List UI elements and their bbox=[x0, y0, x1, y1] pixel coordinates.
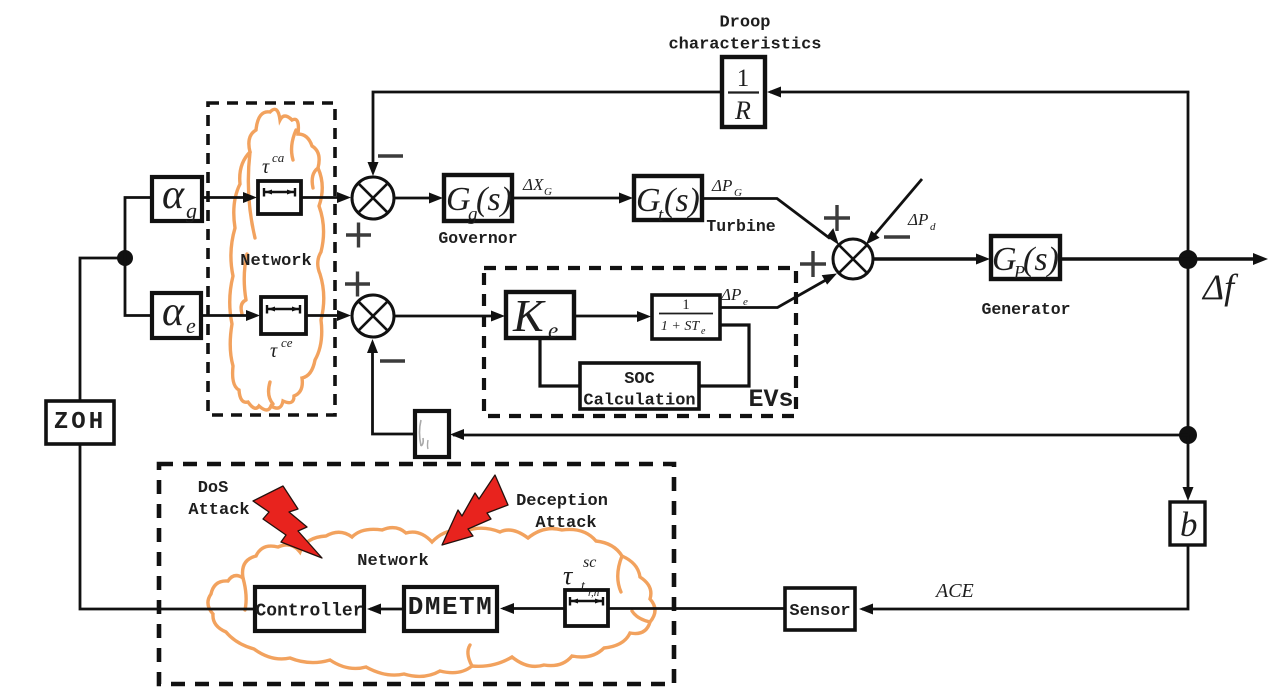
wire Controller to ZOH bbox=[80, 444, 255, 609]
wire EV sum to Ke bbox=[395, 315, 492, 318]
lightning bolt Deception bbox=[442, 475, 508, 545]
svg-text:characteristics: characteristics bbox=[668, 36, 821, 55]
lightning bolt DoS bbox=[253, 486, 322, 558]
block GP generator bbox=[991, 236, 1060, 279]
wire lag block diagonal to sum3 bbox=[720, 277, 832, 308]
svg-text:e: e bbox=[186, 313, 196, 338]
svg-text:Δf: Δf bbox=[1201, 267, 1239, 307]
svg-text:sc: sc bbox=[583, 554, 596, 571]
sign minus S1 bbox=[378, 154, 403, 158]
svg-text:e: e bbox=[548, 318, 558, 343]
label delta Pe bbox=[720, 285, 748, 308]
svg-text:b: b bbox=[1180, 505, 1198, 544]
wire feedback line to small delay block bbox=[453, 434, 1188, 437]
svg-text:ca: ca bbox=[272, 150, 285, 165]
svg-text:Droop: Droop bbox=[719, 14, 770, 33]
label delta XG bbox=[522, 175, 552, 198]
svg-text:DoS: DoS bbox=[198, 479, 229, 498]
svg-text:ΔX: ΔX bbox=[522, 175, 544, 194]
wire right vertical from droop line to output dot bbox=[1187, 92, 1190, 259]
svg-text:Calculation: Calculation bbox=[583, 392, 695, 411]
wire alpha_e to tau_ce bbox=[201, 314, 248, 317]
svg-text:g: g bbox=[186, 198, 197, 223]
wire Ke to lag block bbox=[574, 315, 638, 318]
block Gt turbine bbox=[634, 176, 702, 220]
block Controller bbox=[255, 587, 364, 631]
dashed box: EVs bbox=[484, 268, 796, 416]
wire sum3 to GP bbox=[873, 257, 976, 260]
wire ZOH up to branch dot bbox=[80, 258, 120, 401]
summing junction S3 (main) bbox=[833, 239, 873, 279]
svg-text:1: 1 bbox=[682, 297, 690, 313]
block Sensor bbox=[785, 588, 855, 630]
svg-text:ΔP: ΔP bbox=[907, 210, 928, 229]
block b bbox=[1170, 502, 1205, 545]
label delta PG bbox=[711, 176, 742, 199]
svg-text:Deception: Deception bbox=[516, 492, 608, 511]
svg-text:(s): (s) bbox=[664, 182, 700, 219]
svg-text:Governor: Governor bbox=[438, 229, 517, 248]
wire DMETM to Controller bbox=[370, 608, 404, 611]
svg-text:Sensor: Sensor bbox=[789, 602, 850, 621]
svg-text:τ: τ bbox=[262, 156, 270, 178]
value 1/(1+STe) bbox=[659, 297, 713, 337]
network cloud (top, orange) bbox=[230, 109, 324, 410]
value b bbox=[1180, 505, 1198, 544]
svg-text:r,n: r,n bbox=[588, 587, 600, 599]
value 1/R bbox=[728, 65, 759, 125]
wire alpha_g to tau_ca bbox=[202, 196, 245, 199]
wire GP to output arrow bbox=[1060, 257, 1254, 260]
wire branch to alpha_g bbox=[125, 198, 152, 259]
wire SOC loop right bbox=[699, 325, 749, 386]
dashed box: attack network bbox=[159, 464, 674, 684]
wire output dot down to lower dot bbox=[1187, 259, 1190, 435]
wire Sensor to delay tau_sc bbox=[608, 607, 785, 610]
label tau_ca bbox=[262, 150, 285, 178]
summing junction S2 (EV) bbox=[352, 295, 394, 337]
wire governor sum to Gg bbox=[395, 197, 430, 200]
svg-text:α: α bbox=[162, 172, 185, 218]
svg-text:τ: τ bbox=[270, 340, 278, 362]
block DMETM bbox=[404, 587, 497, 631]
svg-text:G: G bbox=[992, 241, 1017, 278]
svg-text:Generator: Generator bbox=[981, 300, 1070, 319]
svg-text:d: d bbox=[930, 221, 936, 233]
svg-text:Network: Network bbox=[240, 252, 311, 271]
svg-text:Controller: Controller bbox=[255, 602, 363, 622]
svg-text:(s): (s) bbox=[1023, 241, 1059, 278]
svg-text:ΔP: ΔP bbox=[720, 285, 741, 304]
svg-text:1: 1 bbox=[737, 65, 750, 92]
delay block tau_ce bbox=[261, 297, 306, 334]
value alpha_g bbox=[162, 172, 197, 223]
svg-text:ZOH: ZOH bbox=[54, 409, 106, 436]
wire down to block b bbox=[1187, 435, 1190, 488]
node branch dot bbox=[117, 250, 133, 266]
svg-text:DMETM: DMETM bbox=[408, 592, 494, 622]
wire tau_ce to EV sum bbox=[306, 314, 338, 317]
block SOC calculation bbox=[580, 363, 699, 409]
svg-text:G: G bbox=[446, 181, 471, 218]
block ZOH bbox=[46, 401, 114, 444]
value alpha_e bbox=[162, 289, 196, 338]
wire droop output left then down to governor sum bbox=[373, 92, 722, 162]
svg-text:EVs: EVs bbox=[748, 385, 793, 414]
node dot after GP bbox=[1179, 250, 1198, 269]
summing junction S1 (governor) bbox=[352, 177, 394, 219]
svg-text:ACE: ACE bbox=[934, 580, 974, 602]
block Ke bbox=[506, 292, 574, 338]
svg-text:e: e bbox=[743, 296, 748, 308]
sign plus S3 lower bbox=[800, 251, 826, 277]
sign plus S2 bbox=[345, 272, 370, 297]
sign minus S3 bbox=[884, 235, 910, 239]
block 1/R bbox=[722, 57, 765, 127]
wire Gg to Gt bbox=[512, 197, 619, 200]
sign plus S3 upper bbox=[824, 205, 850, 231]
label delta Pd bbox=[907, 210, 936, 233]
node dot feedback bbox=[1179, 426, 1197, 444]
value Ke bbox=[512, 290, 558, 343]
network cloud (bottom, orange) bbox=[208, 528, 655, 677]
sign minus S2 bbox=[380, 359, 405, 363]
svg-text:Network: Network bbox=[357, 552, 428, 571]
svg-text:K: K bbox=[512, 290, 546, 341]
delay block tau_ca bbox=[258, 181, 301, 214]
dashed box: top network bbox=[208, 103, 335, 415]
svg-text:1 + ST: 1 + ST bbox=[661, 319, 700, 334]
value Gt(s) bbox=[636, 182, 700, 226]
svg-text:(s): (s) bbox=[476, 181, 512, 218]
svg-text:ce: ce bbox=[281, 335, 293, 350]
block alpha_g bbox=[152, 177, 202, 221]
block alpha_e bbox=[152, 293, 201, 338]
block Gg governor bbox=[444, 175, 512, 221]
wire small block to lower sum minus input bbox=[373, 344, 416, 434]
wire Gt diagonal to sum3 bbox=[702, 199, 830, 239]
svg-text:G: G bbox=[636, 182, 661, 219]
svg-text:G: G bbox=[544, 186, 552, 198]
label tau_sc bbox=[563, 554, 600, 599]
svg-text:Attack: Attack bbox=[188, 501, 249, 520]
label delta f bbox=[1201, 267, 1239, 307]
wire SOC loop left to Ke bbox=[540, 338, 580, 386]
svg-text:Attack: Attack bbox=[535, 514, 596, 533]
sign plus S1 bbox=[346, 223, 371, 248]
wire tau_ca to governor sum bbox=[301, 196, 338, 199]
svg-text:R: R bbox=[734, 96, 751, 125]
block small feedback beta bbox=[415, 411, 449, 457]
wire tau_sc to DMETM bbox=[503, 607, 565, 610]
wire delta Pd diagonal into sum3 bbox=[872, 179, 922, 238]
svg-text:SOC: SOC bbox=[624, 370, 655, 389]
label ACE bbox=[934, 580, 974, 602]
block EV lag 1/(1+STe) bbox=[652, 295, 720, 339]
wire b to ACE corner and to Sensor bbox=[862, 545, 1188, 609]
svg-text:G: G bbox=[734, 187, 742, 199]
label tau_ce bbox=[270, 335, 293, 362]
value GP(s) bbox=[992, 241, 1059, 282]
svg-text:Turbine: Turbine bbox=[706, 217, 775, 236]
svg-text:e: e bbox=[701, 326, 706, 337]
svg-text:ΔP: ΔP bbox=[711, 176, 732, 195]
delay block tau_sc bbox=[565, 590, 608, 626]
value Gg(s) bbox=[446, 181, 512, 225]
wire branch to alpha_e bbox=[125, 258, 152, 316]
wire droop feedback top right bbox=[770, 92, 1188, 93]
svg-text:α: α bbox=[162, 289, 185, 335]
